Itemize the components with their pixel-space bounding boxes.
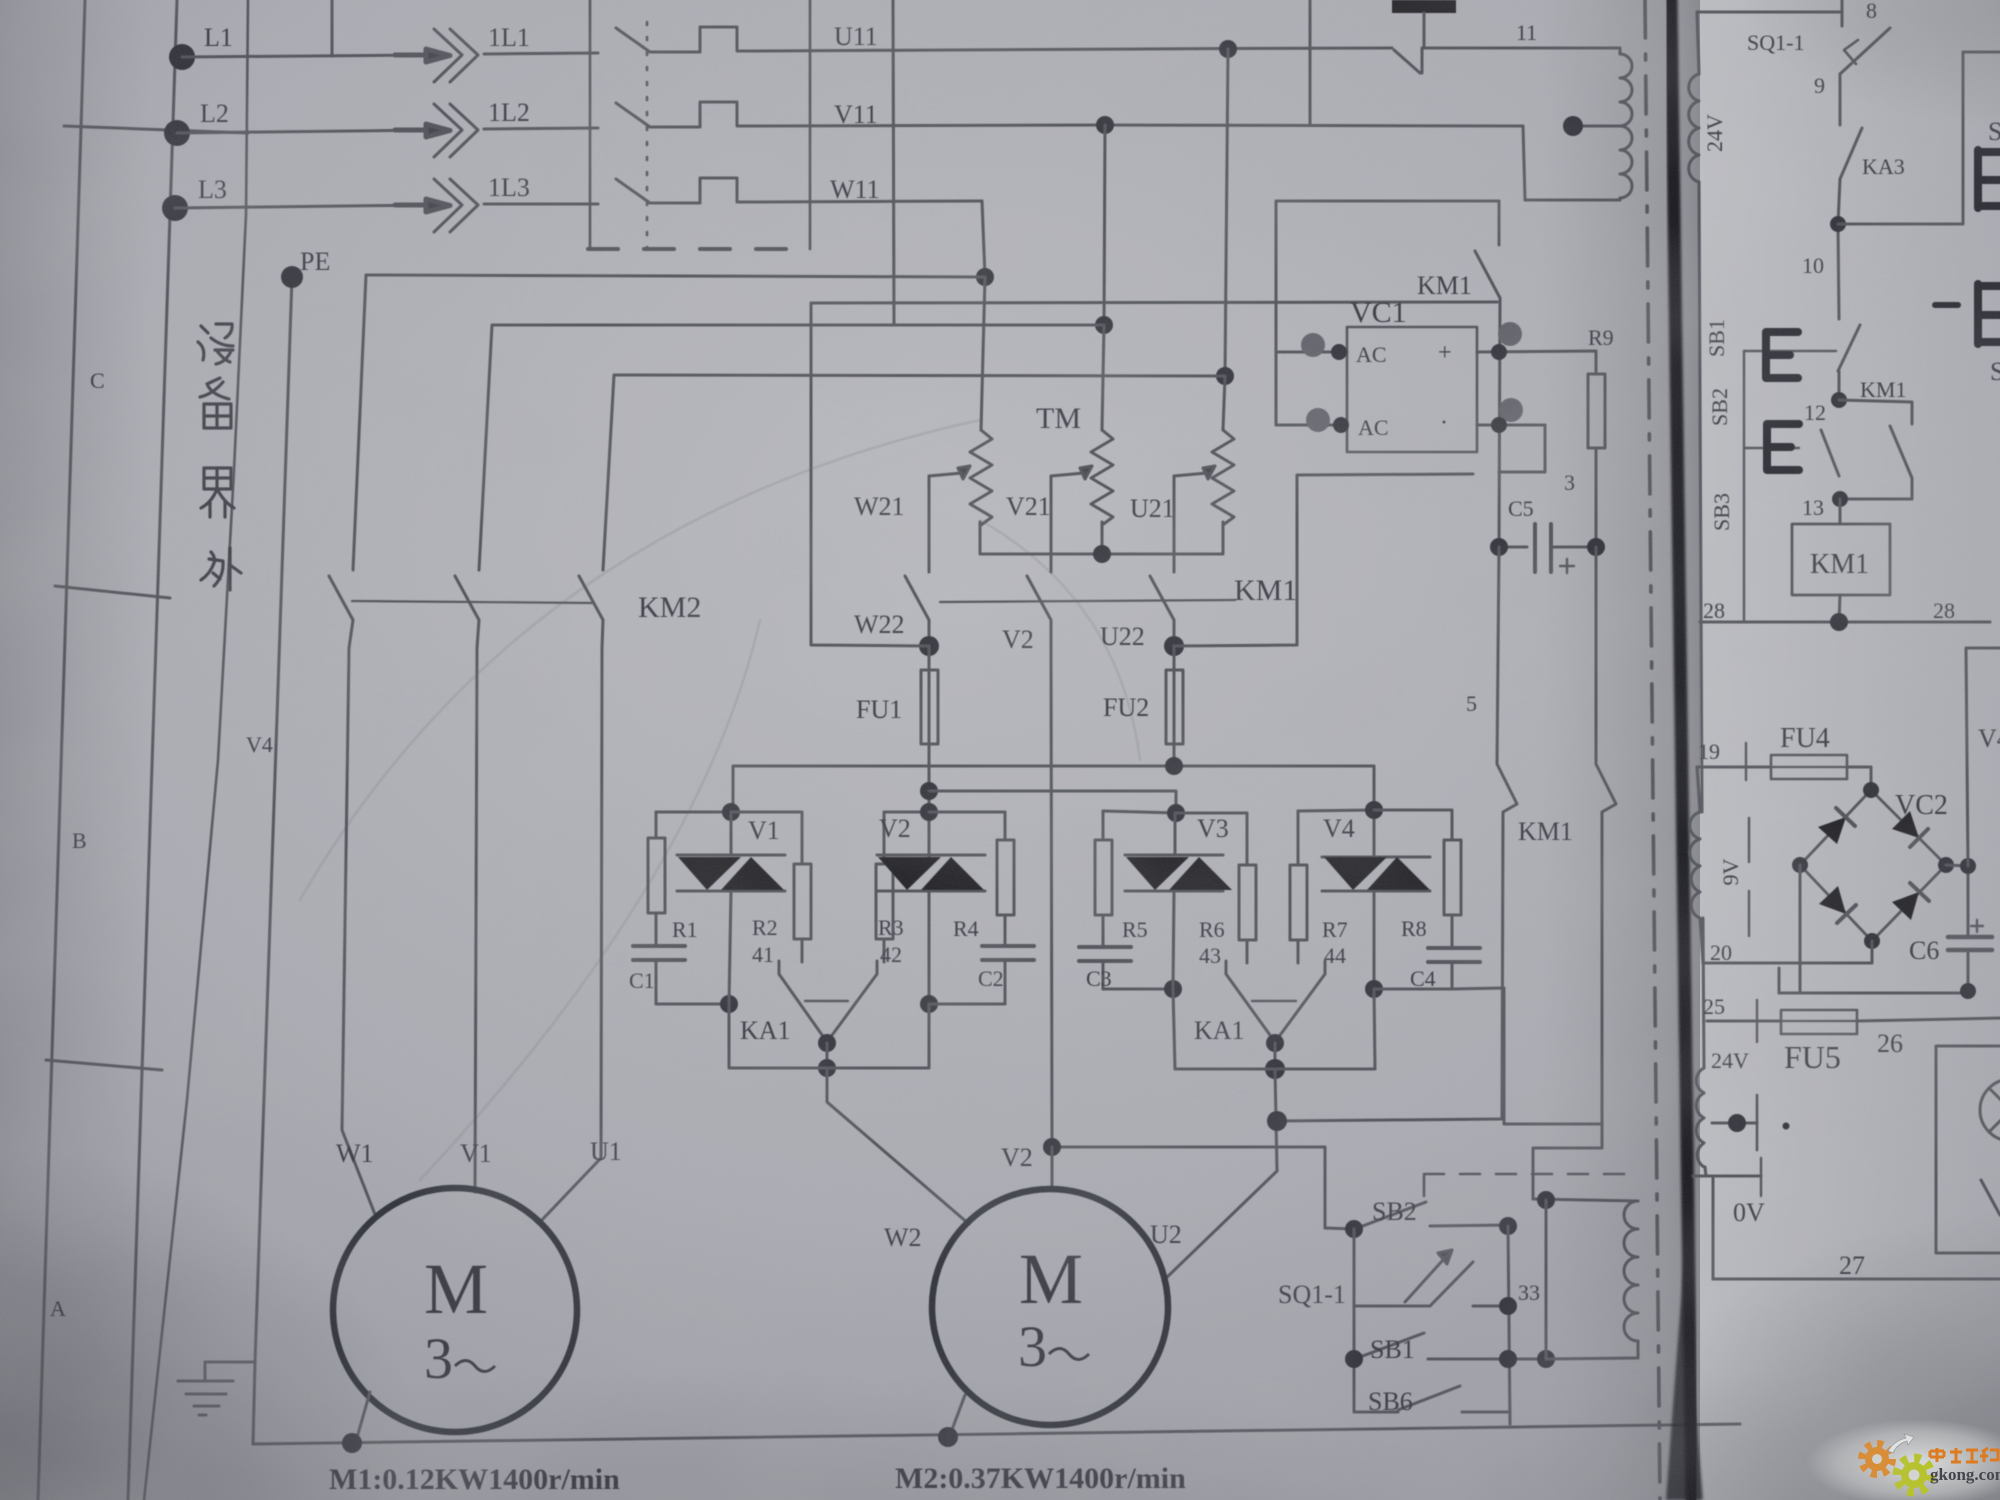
watermark gkong logo <box>1806 1419 2000 1500</box>
linkage dashes SB2/SQ1 <box>1424 1174 1628 1210</box>
contactor KM1 pole3 wire <box>1173 476 1176 572</box>
node U-phase junction <box>1216 367 1234 385</box>
node L1 terminal <box>169 44 195 70</box>
capacitor C4 <box>1428 948 1480 989</box>
frame zone tick B/A <box>46 1060 162 1070</box>
faint scratch arcs <box>300 420 1140 1180</box>
contactor KM1 aux contact <box>1475 201 1500 298</box>
breaker QF pole L3 <box>616 178 760 203</box>
resistor R5 <box>1095 811 1112 947</box>
wire FU4 to bridge <box>1847 767 1871 790</box>
wire VC1 AC input top <box>1276 351 1347 354</box>
motor M1 bottom lead <box>356 1392 370 1441</box>
wire W11 drop <box>982 201 985 277</box>
wire W11 <box>760 201 982 202</box>
resistor R8 <box>1374 810 1461 948</box>
wire L3 to breaker <box>484 203 598 206</box>
relay contact KA1 left <box>779 961 877 1042</box>
wire C2 rail <box>929 1003 1005 1006</box>
contactor KM2 pole2 blade <box>455 576 479 620</box>
contactor KM1 linkage <box>940 600 1235 602</box>
wire 0V drop <box>1712 1176 1715 1279</box>
triac V1 <box>677 812 785 1004</box>
transformer T bottom lead <box>1525 198 1620 200</box>
wire right block top rail <box>1103 811 1176 813</box>
contactor KM1 main lower pole right <box>1533 547 1616 1199</box>
contactor KM1 pole2 wire <box>1050 476 1053 572</box>
node transformer tap <box>1563 116 1583 136</box>
frame outer border line <box>38 0 85 1500</box>
wire SB branch rail <box>1743 351 1745 622</box>
terminal bar 9V bottom <box>1748 891 1750 936</box>
wire U1 lead <box>540 648 602 1222</box>
node bridge bottom <box>1864 933 1880 949</box>
node PE terminal <box>281 266 303 288</box>
button SB6 <box>1354 1386 1510 1412</box>
contactor KM2 pole1 blade <box>329 576 353 620</box>
node V-phase junction <box>1095 316 1113 334</box>
char jie <box>201 468 234 517</box>
breaker QF linkage dashed <box>646 22 649 248</box>
node minus junction <box>1491 417 1507 433</box>
gear green <box>1897 1458 1931 1492</box>
wire VC1 AC feeds drop <box>1275 302 1278 425</box>
autotransformer TM coil V21 <box>1091 430 1113 525</box>
fuse FU4 <box>1771 755 1847 779</box>
wire V21 coil feed <box>1102 325 1104 430</box>
node coil top <box>1537 1191 1555 1209</box>
wire FU2 to bus <box>1173 744 1176 766</box>
wire U21 coil feed <box>1223 376 1225 430</box>
wire C4 rail <box>1374 988 1452 991</box>
gutter shadow bottom wedge <box>1666 1260 1703 1500</box>
label M2 symbol <box>1018 1239 1089 1379</box>
wire C3 rail <box>1103 988 1173 991</box>
wire L3 <box>175 205 432 208</box>
node V2 junction <box>1043 1138 1061 1156</box>
fuse FU1 <box>921 646 938 744</box>
node W22 <box>919 636 939 656</box>
node TM bottom junction <box>1093 545 1111 563</box>
wire node 10 <box>1838 179 1840 319</box>
node SB1 right <box>1499 1350 1517 1368</box>
frame zone tick C/B <box>55 586 170 598</box>
chevrons L3 <box>434 179 478 232</box>
transformer secondary 24V bottom <box>1696 1068 1704 1167</box>
capacitor C3 <box>1079 947 1131 989</box>
wire L1 <box>182 55 432 57</box>
wire KM1 aux riser <box>1276 201 1499 302</box>
transformer T primary top lead <box>1560 48 1620 54</box>
node KM1 branch <box>1267 1111 1287 1131</box>
terminal bar 9V top <box>1748 818 1750 862</box>
wire node20 row <box>1703 941 1872 963</box>
wire KA1 right common <box>1274 1043 1277 1069</box>
page2 supply bus <box>1697 12 1706 1176</box>
watermark text zhonghua gongkong <box>1930 1448 1998 1462</box>
blob plus <box>1498 322 1522 346</box>
wire W21 coil feed <box>981 277 985 430</box>
wire U-phase to KM2 pole3 <box>603 375 1225 570</box>
resistor R4 <box>929 812 1014 946</box>
breaker QF enclosure bottom dashed <box>588 247 812 251</box>
wire main snubber bus <box>733 766 1374 812</box>
node FU1 branch <box>920 782 938 800</box>
wire minus rail <box>1779 968 1974 993</box>
wire KA1 left return rail <box>729 1004 827 1068</box>
node 12 <box>1831 392 1847 408</box>
wire node 9 <box>1839 74 1842 125</box>
rectifier module VC1 box <box>1347 327 1477 452</box>
node M1 bottom <box>342 1433 362 1453</box>
resistor R6 <box>1176 813 1256 963</box>
frame zone tick C <box>64 126 248 133</box>
limit switch SQ1-1 <box>1354 1250 1508 1306</box>
breaker QF pole L1 <box>616 27 760 52</box>
node 24V tap <box>1728 1114 1746 1132</box>
motor M2 <box>932 1189 1168 1425</box>
char she <box>198 324 233 364</box>
rectifier bridge VC2 <box>1800 790 1946 941</box>
fuse FU2 <box>1166 646 1183 744</box>
wire node19 row <box>1697 766 1771 769</box>
ground PE <box>178 1362 255 1415</box>
relay coil KM1 box <box>1792 499 1890 622</box>
contactor KM2 linkage <box>352 601 592 603</box>
button SB3 page2 <box>1744 424 1839 476</box>
triac V3 <box>1125 813 1232 989</box>
wire bridge left drop <box>1799 865 1802 993</box>
frame inner border line <box>128 0 177 1500</box>
wire V11 drop to transformer <box>1523 126 1525 200</box>
wire V2 to SB2 <box>1052 1147 1354 1229</box>
contactor KM1 pole2 blade <box>1027 576 1051 648</box>
wire L1 to breaker <box>484 53 598 54</box>
node V4 bottom rail <box>1365 980 1383 998</box>
gear orange <box>1862 1444 1892 1474</box>
wire 24V tap <box>1712 1122 1757 1125</box>
page border dash-dot line <box>1645 0 1660 1500</box>
contactor KM1 pole1 wire <box>928 476 931 572</box>
wire W2 lead <box>827 1068 969 1224</box>
wire bottom return <box>253 1424 1740 1444</box>
lamp lower stub <box>1981 1180 2000 1215</box>
node AC bottom <box>1333 417 1349 433</box>
blob AC top <box>1301 333 1325 357</box>
char bei <box>200 378 231 428</box>
node V3 top <box>1167 804 1185 822</box>
wire KM1 aux to plus rail <box>1499 298 1500 547</box>
contactor KM1 pole1 blade <box>905 576 929 648</box>
equipment boundary line <box>144 0 248 1500</box>
resistor R9 <box>1588 374 1605 448</box>
button SB cut glyph mid <box>1978 284 2000 344</box>
wire VC1 minus output loop <box>1477 425 1545 472</box>
wire KA1 right right rail <box>1275 989 1375 1069</box>
node C5 right <box>1587 538 1605 556</box>
arrow L1 feed <box>395 49 450 62</box>
node V1 top <box>722 803 740 821</box>
node L3 terminal <box>162 195 188 221</box>
lamp branch box <box>1936 1046 2000 1253</box>
symbol cropped at top edge <box>1392 0 1456 13</box>
triac V2 <box>877 812 985 1004</box>
button SB cut glyph top <box>1978 150 2000 208</box>
node KA1 apex <box>818 1034 836 1052</box>
terminal bar 25 <box>1756 1000 1758 1042</box>
wire bus 28 <box>1700 621 1990 624</box>
wire KM1 to KA1 node <box>1277 1119 1502 1121</box>
wire KA1 right left rail <box>1173 989 1275 1069</box>
node V3 bottom rail <box>1164 980 1182 998</box>
wire VC1 AC input bottom <box>1276 424 1347 427</box>
lamp EL <box>1980 1079 2000 1141</box>
wire V-phase to KM2 pole2 <box>479 325 1104 570</box>
wire R7 top rail <box>1298 810 1374 811</box>
arrow L3 feed <box>395 199 450 212</box>
wire coil parallel <box>1545 1200 1548 1359</box>
wire top stub x1310 <box>1309 0 1312 124</box>
button SB2 page2 <box>1744 325 1860 400</box>
wire bus 27 <box>1713 1278 2000 1281</box>
relay contact KA1 right <box>1226 961 1325 1042</box>
wire KA1 common <box>826 1043 829 1068</box>
node plus junction <box>1491 344 1507 360</box>
breaker QF enclosure left side <box>589 0 592 249</box>
blob AC bottom <box>1306 408 1330 432</box>
wire FU1 to V2-triac node <box>928 744 931 857</box>
triac V4 <box>1322 810 1430 989</box>
terminal bar 19 <box>1745 743 1747 780</box>
chevrons L2 <box>434 104 478 157</box>
wire V11 <box>760 125 1523 126</box>
wire W-phase to KM2 pole1 <box>353 275 985 570</box>
autotransformer TM coil W21 <box>970 430 992 525</box>
contactor KM2 pole3 blade <box>579 576 603 620</box>
wire KA3 right branch <box>1838 52 2000 224</box>
wire KA1 right return rail <box>827 1004 929 1068</box>
node U22 <box>1164 636 1184 656</box>
node SB1 left <box>1345 1350 1363 1368</box>
node bridge right <box>1938 857 1954 873</box>
node M2 bottom <box>938 1427 958 1447</box>
wire U-phase drop <box>1225 49 1228 376</box>
breaker QF enclosure right side <box>809 0 812 249</box>
transformer T primary winding <box>1620 54 1632 198</box>
wire 0V row <box>1693 1175 1761 1178</box>
wire right button bus <box>1508 1226 1510 1424</box>
transformer secondary 9V <box>1690 767 1703 963</box>
TM wiper W21 <box>929 466 970 479</box>
node V11 junction <box>1096 116 1114 134</box>
wire top stub x893 <box>893 0 894 324</box>
node KA1 right common <box>1265 1059 1285 1079</box>
resistor R3 <box>876 812 929 962</box>
wire V-phase drop <box>1104 125 1105 325</box>
contactor KM1 selfhold contact page2 <box>1839 400 1912 499</box>
wire V1 lead <box>475 648 477 1192</box>
wire coil bottom <box>1546 1358 1638 1359</box>
motor M2 bottom lead <box>950 1395 965 1435</box>
breaker QF pole L2 <box>616 102 760 127</box>
top-left stub wire <box>331 0 334 56</box>
node V4 top <box>1365 801 1383 819</box>
node V2 top <box>920 803 938 821</box>
wire W1 lead <box>342 648 376 1217</box>
node FU2 on bus <box>1165 757 1183 775</box>
wire KA1 common drop <box>1275 1069 1277 1171</box>
arrow swoosh <box>1888 1434 1914 1453</box>
dot mark <box>1783 1123 1790 1130</box>
blob minus <box>1499 398 1523 422</box>
wire R9 to C5 node <box>1595 448 1598 547</box>
wire U11 <box>760 48 1392 51</box>
node 10 junction <box>1830 216 1846 232</box>
node 28 <box>1830 613 1848 631</box>
wire left block top rail <box>656 811 731 814</box>
wire gate bus FU1 side <box>929 791 1176 813</box>
resistor R7 <box>1290 811 1307 963</box>
wire KM1 to relay coil top <box>1533 1199 1638 1201</box>
TM wiper U21 <box>1174 466 1215 479</box>
resistor R1 <box>648 812 665 946</box>
button SB2 <box>1360 1202 1508 1227</box>
wire V4 line page2 <box>1966 648 2000 866</box>
wire C4 block to KM1 branch <box>1452 988 1602 1124</box>
char wai <box>201 548 241 590</box>
wire W22 loop to KM1 aux <box>811 302 1497 646</box>
node KA1 common <box>818 1059 836 1077</box>
capacitor C2 <box>982 946 1034 1004</box>
node SQ1-1 right <box>1499 1297 1517 1315</box>
wire V2 phase drop <box>1051 648 1052 1147</box>
wire L2 to breaker <box>484 128 598 129</box>
minus dash <box>1935 302 1958 308</box>
contactor KM1 main contact row U <box>1394 48 1560 73</box>
node C5 left <box>1490 538 1508 556</box>
arrow L2 feed <box>395 124 450 137</box>
wire page2 top link <box>1697 11 1842 14</box>
wire bridge right to C6 <box>1946 865 1968 936</box>
terminal bar 24V <box>1756 1095 1759 1150</box>
wire PE drop <box>253 277 292 1444</box>
transformer T tap wire <box>1573 125 1620 128</box>
capacitor C1 <box>633 946 685 1004</box>
wire left button bus <box>1353 1229 1356 1412</box>
contactor KM1 main lower pole left <box>1497 547 1517 1119</box>
node SB2 left <box>1345 1220 1363 1238</box>
node L2 terminal <box>164 120 190 146</box>
transformer secondary 24V top <box>1689 74 1699 182</box>
limit switch SQ1-1 page2 <box>1840 0 1890 74</box>
wire V2 lead into motor <box>1051 1147 1054 1190</box>
TM wiper V21 <box>1051 466 1092 479</box>
node KA1 right apex <box>1266 1034 1284 1052</box>
node 13 <box>1832 491 1848 507</box>
capacitor C6 polarity <box>1971 920 1983 932</box>
motor M1 <box>333 1188 577 1432</box>
wire U2 lead <box>1163 1171 1277 1281</box>
wire L2 <box>177 130 432 133</box>
contactor KM1 pole3 blade <box>1150 576 1174 648</box>
wire VC1 plus output <box>1477 351 1596 374</box>
chinese text 设备界外 <box>198 324 241 590</box>
wire U22 to bus corner <box>1174 474 1473 646</box>
node U11 junction <box>1219 40 1237 58</box>
node left rail <box>720 995 738 1013</box>
node right rail <box>920 995 938 1013</box>
node W11/W21 junction <box>976 268 994 286</box>
node coil bottom <box>1537 1350 1555 1368</box>
wire C1 rail <box>656 1003 729 1006</box>
wire TM bottom bus <box>980 522 1223 554</box>
wire from cropped symbol <box>1423 13 1426 47</box>
node minus rail right <box>1960 983 1976 999</box>
inductor coil bottom right <box>1624 1201 1638 1358</box>
node SB2 right <box>1499 1217 1517 1235</box>
node C6 top link <box>1960 858 1976 874</box>
capacitor C5 <box>1499 524 1596 572</box>
wire node25 row <box>1707 1020 1781 1023</box>
autotransformer TM coil U21 <box>1212 430 1234 525</box>
fuse FU5 <box>1781 1010 1857 1034</box>
button SB1 <box>1360 1333 1546 1359</box>
node bridge left <box>1792 857 1808 873</box>
terminal bar 0V <box>1760 1158 1762 1196</box>
resistor R2 <box>731 812 811 962</box>
wire FU5 to 26 <box>1857 1018 2000 1021</box>
relay contact KA3 <box>1840 128 1862 179</box>
book gutter thick line <box>1671 0 1692 1500</box>
node bridge top <box>1863 782 1879 798</box>
node AC top <box>1331 344 1347 360</box>
chevrons L1 <box>434 29 478 82</box>
label M1 symbol <box>424 1249 495 1391</box>
capacitor C6 <box>1948 937 1992 991</box>
capacitor C5 polarity plus <box>1560 559 1574 573</box>
